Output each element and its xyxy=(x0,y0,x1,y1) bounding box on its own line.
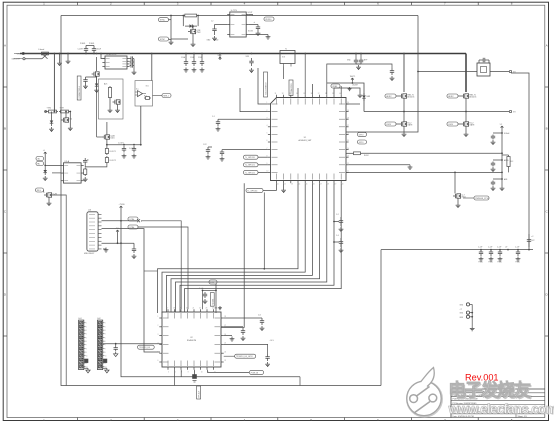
svg-text:C-OUT2: C-OUT2 xyxy=(129,148,135,150)
net label vertical left of U1 top xyxy=(264,72,268,97)
svg-text:U-C: U-C xyxy=(136,89,140,91)
svg-text:6: 6 xyxy=(267,140,268,142)
svg-text:9: 9 xyxy=(86,352,87,354)
svg-text:VO: VO xyxy=(513,112,516,114)
svg-text:4: 4 xyxy=(86,334,87,336)
comparator U6 xyxy=(138,91,143,97)
component Y1 on bus above U1 xyxy=(280,51,295,64)
transistor Q8 high side 2 xyxy=(464,93,466,98)
svg-text:B2B: B2B xyxy=(282,57,285,59)
svg-text:PGND18: PGND18 xyxy=(212,299,214,305)
capacitor C19 on header wire xyxy=(115,344,117,346)
capacitor C9 at U5 input xyxy=(214,25,216,29)
svg-text:+: + xyxy=(254,21,256,24)
svg-text:C-4: C-4 xyxy=(336,235,339,237)
svg-text:1: 1 xyxy=(158,316,159,318)
wire J1 pin row 1 xyxy=(102,220,138,222)
svg-text:C-1uF: C-1uF xyxy=(488,247,492,249)
wire IC1 feedback xyxy=(346,72,418,133)
terminal VO2 xyxy=(509,110,511,112)
capacitor bank right of U4 xyxy=(130,58,131,60)
svg-text:32: 32 xyxy=(282,93,284,95)
svg-text:C-OUT1: C-OUT1 xyxy=(118,143,124,145)
svg-text:16: 16 xyxy=(313,184,315,186)
svg-text:7: 7 xyxy=(105,345,106,347)
ground below C8 xyxy=(257,31,259,33)
net label GDM2 xyxy=(36,162,44,166)
resistor R6 in comparator box xyxy=(144,97,146,99)
svg-text:17: 17 xyxy=(167,308,169,310)
connector J1 xyxy=(87,212,98,251)
wire bus drop Q7 xyxy=(403,54,405,93)
svg-text:SYNC: SYNC xyxy=(160,39,166,41)
svg-text:9: 9 xyxy=(105,352,106,354)
transistor Q11 PMOS output xyxy=(105,134,107,139)
svg-text:AO4435: AO4435 xyxy=(469,96,476,99)
wire SW node junction xyxy=(417,71,419,73)
svg-text:VDD50: VDD50 xyxy=(265,19,271,21)
wire U1 top pin stub up xyxy=(340,86,342,95)
wire crystal drop a xyxy=(141,221,181,309)
svg-text:RDA5807M: RDA5807M xyxy=(187,339,197,342)
branch SCA-H xyxy=(493,132,502,134)
capacitor C30 output 1 xyxy=(123,146,125,148)
svg-text:R-OUT2: R-OUT2 xyxy=(110,160,116,162)
ground below C6A xyxy=(185,68,187,70)
IC U1 pin stubs and labels xyxy=(275,95,277,98)
wire U1 left pins out xyxy=(258,68,268,104)
wire bus drop left chain xyxy=(53,54,55,112)
capacitor C4 xyxy=(85,77,87,80)
net label TL_GPIO20 xyxy=(244,155,259,159)
ground below sync xyxy=(170,40,172,42)
net label VDD50 xyxy=(264,17,274,21)
wire sync joins xyxy=(169,19,172,21)
net label far left a xyxy=(128,217,138,221)
ground small above U2 xyxy=(219,306,221,308)
svg-text:AVD: AVD xyxy=(215,307,219,310)
net label vertical below U2 xyxy=(197,386,201,399)
capacitor C13 output electrolytic xyxy=(528,234,530,240)
wire U1 top pin to bus xyxy=(304,54,306,95)
svg-text:SCON: SCON xyxy=(248,31,254,33)
svg-text:1: 1 xyxy=(105,323,106,325)
wire stair 7 xyxy=(185,183,342,313)
power flag WGT1 xyxy=(351,78,353,81)
wire U3 left pin mid xyxy=(52,172,61,174)
ground below AVDD column xyxy=(501,186,503,188)
watermark text chinese xyxy=(448,379,554,417)
transistor Q9 low side xyxy=(402,121,404,126)
resistor R10 output divider upper xyxy=(106,147,108,149)
svg-text:VDD-CONNECT: VDD-CONNECT xyxy=(266,83,268,95)
terminal VO xyxy=(509,70,511,72)
svg-text:SYNC: SYNC xyxy=(160,20,166,22)
svg-text:10: 10 xyxy=(201,372,203,374)
svg-text:VIN: VIN xyxy=(17,54,21,56)
svg-text:18: 18 xyxy=(327,184,329,186)
svg-text:C-1uF: C-1uF xyxy=(478,247,482,249)
IC U1 main controller xyxy=(271,98,347,181)
svg-text:AVB: AVB xyxy=(504,178,508,181)
transistor Q6 xyxy=(64,117,66,122)
wire VO to filter cap column xyxy=(511,73,529,250)
watermark logo leaf xyxy=(407,368,442,417)
regulator U5 xyxy=(230,12,246,37)
net label right of Q3 xyxy=(474,196,489,200)
pin header J-H2 xyxy=(98,320,103,370)
resistor R5 on top rail xyxy=(183,15,185,17)
wire from GND connector xyxy=(25,58,42,60)
svg-text:20: 20 xyxy=(186,308,188,310)
resistor R9 pair right column xyxy=(508,155,510,157)
resistor R12 right of U3 xyxy=(84,168,86,170)
transistor Q10 low side 2 xyxy=(464,121,466,126)
IC U3 supervisor xyxy=(64,163,82,183)
svg-text:37: 37 xyxy=(318,93,320,95)
svg-text:A1: A1 xyxy=(87,159,89,162)
wire cap drop to U2 xyxy=(202,290,204,309)
svg-text:C-1: C-1 xyxy=(212,116,215,118)
frame column ticks xyxy=(76,2,78,5)
power flag 1p2 right column xyxy=(501,126,503,129)
wire long drop right of U2 xyxy=(221,183,244,327)
crossover of input pair xyxy=(42,54,48,59)
svg-text:R-FB2: R-FB2 xyxy=(364,155,369,157)
wire U1 bottom pin net label xyxy=(263,183,276,190)
svg-text:25: 25 xyxy=(347,140,349,142)
ground U5 right low xyxy=(249,34,268,36)
svg-text:+TVDD: +TVDD xyxy=(119,204,126,206)
transistor Q3 xyxy=(456,193,458,198)
diode D1 xyxy=(96,82,98,88)
svg-text:--<|: --<| xyxy=(460,308,463,311)
capacitor C2 PGND pullup xyxy=(85,46,87,49)
wire divider to U3 xyxy=(85,164,107,167)
ground below C33 xyxy=(391,76,393,78)
svg-text:24: 24 xyxy=(347,148,349,150)
wire routed left of stairs xyxy=(263,192,265,268)
net label TL_GPIO bottom xyxy=(246,188,263,192)
svg-text:5: 5 xyxy=(267,133,268,135)
svg-text:X-TAL: X-TAL xyxy=(129,226,134,229)
svg-text:C-1uF: C-1uF xyxy=(515,247,519,249)
wire output rail xyxy=(364,111,509,113)
net label GPIO b xyxy=(358,140,367,144)
svg-text:B: B xyxy=(4,127,6,131)
svg-text:RFG: RFG xyxy=(37,190,42,192)
svg-text:8: 8 xyxy=(188,372,189,374)
svg-text:C-G: C-G xyxy=(258,315,262,317)
svg-text:14: 14 xyxy=(299,184,301,186)
net label TP_GPIO right xyxy=(235,354,256,358)
svg-text:GND: GND xyxy=(207,40,212,42)
ground below C24 xyxy=(267,362,269,364)
svg-text:MBR: MBR xyxy=(367,96,371,98)
resistor R4 divider xyxy=(59,111,61,113)
svg-text:R-OUT1: R-OUT1 xyxy=(110,151,116,153)
svg-text:电子发烧友: 电子发烧友 xyxy=(448,379,531,400)
ground small below WGT1 xyxy=(349,87,351,89)
svg-text:J-M: J-M xyxy=(88,210,91,212)
svg-text:TP/GPIO_LB: TP/GPIO_LB xyxy=(139,347,151,349)
svg-text:2: 2 xyxy=(105,326,106,328)
svg-text:X-TAL: X-TAL xyxy=(129,218,134,221)
ground below R12 xyxy=(84,177,86,179)
diode D3 parallel path xyxy=(182,16,184,27)
svg-text:5: 5 xyxy=(105,337,106,339)
capacitor C33 bootstrap xyxy=(391,68,393,71)
net label GPIO a xyxy=(358,132,367,136)
ground below Q9 xyxy=(403,132,405,134)
capacitor C6A on bus xyxy=(185,59,187,62)
svg-text:28: 28 xyxy=(347,117,349,119)
net label SENSE right of box xyxy=(162,94,171,98)
svg-text:B: B xyxy=(546,127,548,131)
capacitor C6B on bus xyxy=(193,59,195,62)
ground below Q2 xyxy=(192,42,194,44)
svg-text:+C: +C xyxy=(531,236,534,238)
net label far left b xyxy=(128,225,138,229)
svg-text:4: 4 xyxy=(105,334,106,336)
ground in box right xyxy=(117,108,119,110)
wire from VIN connector xyxy=(24,53,40,55)
net label SYNC1 xyxy=(159,18,169,22)
svg-text:GND: GND xyxy=(347,60,351,62)
capacitor C31 output 2 xyxy=(133,146,135,148)
svg-text:1: 1 xyxy=(86,323,87,325)
wire AVDD column xyxy=(501,129,503,186)
wire output node horizontal xyxy=(107,144,141,146)
svg-text:L-F: L-F xyxy=(505,247,507,249)
diode D2 below divider xyxy=(54,111,56,113)
wire 1p8V down to U2 xyxy=(215,284,217,313)
terminal X1 xyxy=(137,219,140,222)
svg-text:PGND: PGND xyxy=(516,262,521,264)
wire stair 4 xyxy=(171,183,320,313)
wire testpoints common xyxy=(471,304,473,326)
wire stair 1 xyxy=(158,183,299,313)
svg-text:+5V L: +5V L xyxy=(270,340,275,342)
wire U5 VOUT to rail xyxy=(249,14,253,17)
svg-text:R-C: R-C xyxy=(511,161,515,163)
svg-text:11: 11 xyxy=(277,184,279,186)
svg-text:C10uH: C10uH xyxy=(96,49,102,51)
wire POW_IN from U2 bottom xyxy=(208,370,250,373)
svg-text:4: 4 xyxy=(267,125,268,127)
svg-text:OUT: OUT xyxy=(531,240,535,242)
svg-text:1.2: 1.2 xyxy=(211,21,213,23)
net label vertical above U1 xyxy=(289,80,293,96)
svg-text:TL_GPIO20: TL_GPIO20 xyxy=(245,157,255,159)
capacitor C7 on bus xyxy=(251,58,253,61)
wire comparator box to output node xyxy=(140,106,142,145)
wire J1 pin row 2 xyxy=(102,242,135,244)
capacitor C6C on bus xyxy=(201,59,203,62)
capacitor C14 left of U1 xyxy=(218,118,268,120)
svg-text:1.2V: 1.2V xyxy=(203,144,207,146)
title block frame xyxy=(450,389,452,418)
capacitor C24 5V branch xyxy=(267,354,269,357)
svg-text:GATE: GATE xyxy=(469,124,475,127)
wire left tall vertical xyxy=(61,16,381,386)
svg-text:GPIO: GPIO xyxy=(359,142,364,144)
svg-text:TTR7: TTR7 xyxy=(60,107,65,109)
svg-text:12: 12 xyxy=(105,363,107,365)
svg-text:5: 5 xyxy=(168,372,169,374)
svg-text:3: 3 xyxy=(158,334,159,336)
wire U1 top pin up xyxy=(297,88,299,95)
svg-text:SPK-OUT: SPK-OUT xyxy=(199,391,201,398)
svg-text:29: 29 xyxy=(347,110,349,112)
ground below D7 xyxy=(44,176,46,178)
ground below C19 xyxy=(115,352,117,354)
net label TP_GPIO_LB xyxy=(138,345,155,349)
frame row ticks xyxy=(3,86,7,88)
svg-text:A: A xyxy=(546,44,548,48)
svg-text:23: 23 xyxy=(224,360,226,362)
wire U5 right mid xyxy=(249,24,258,26)
wire U2 bottom to rail xyxy=(299,377,301,386)
ground below C7 xyxy=(251,68,253,70)
svg-text:3401: 3401 xyxy=(110,138,114,140)
svg-text:WGT1: WGT1 xyxy=(350,76,355,78)
svg-text:GND: GND xyxy=(460,304,464,306)
svg-text:31: 31 xyxy=(275,93,277,95)
svg-text:LDRV: LDRV xyxy=(386,124,392,126)
capacitor C22 on output row xyxy=(499,250,501,252)
capacitor C21 on output row xyxy=(490,250,492,252)
IC U2 pin stubs xyxy=(167,309,169,312)
ground in box left xyxy=(109,108,111,110)
svg-text:6: 6 xyxy=(158,360,159,362)
svg-text:TL_GPIO21: TL_GPIO21 xyxy=(245,165,255,167)
svg-text:PWM-EN_ST10: PWM-EN_ST10 xyxy=(475,198,488,200)
svg-text:MINI-USB-9P: MINI-USB-9P xyxy=(84,253,95,255)
ground below C30 xyxy=(123,154,125,156)
ground right of U1 top xyxy=(359,93,361,95)
wire Q11 gate xyxy=(96,77,98,137)
wire U2 right row1 xyxy=(224,317,262,319)
wire U1 right pin to column xyxy=(346,171,502,173)
svg-text:PA: PA xyxy=(37,162,40,165)
svg-text:C10A: C10A xyxy=(181,56,186,59)
wire lower-right region boundary xyxy=(380,250,382,386)
ground below C4 xyxy=(85,84,87,86)
capacitor C8 with polarity xyxy=(257,25,259,27)
wire Y1 down to U1 xyxy=(283,67,285,80)
wire U5 left input xyxy=(215,24,228,26)
wire main VIN bus xyxy=(20,53,466,55)
wire branch to crystal drop xyxy=(144,270,158,272)
svg-text:C-1uF: C-1uF xyxy=(199,288,203,290)
svg-text:8: 8 xyxy=(105,348,106,350)
ground below C9 xyxy=(214,36,216,38)
svg-text:PGND: PGND xyxy=(489,262,494,264)
ground below input xyxy=(59,54,61,62)
wire SW vertical xyxy=(327,83,364,112)
subcircuit box xyxy=(99,79,124,119)
ground right of U1 xyxy=(409,165,411,167)
net label SYNC2 xyxy=(159,37,169,41)
resistor R8 right of U1 xyxy=(352,152,354,154)
svg-text:HDRV: HDRV xyxy=(386,96,392,98)
resistor R11 output divider lower xyxy=(106,156,108,158)
ground right of divider xyxy=(69,112,71,127)
svg-text:VREF: VREF xyxy=(332,86,338,88)
ground right of U2 xyxy=(231,337,233,339)
svg-text:VOUT: VOUT xyxy=(248,12,254,14)
svg-text:U2: U2 xyxy=(190,337,192,339)
svg-text:13: 13 xyxy=(291,184,293,186)
svg-text:A: A xyxy=(4,44,6,48)
svg-text:U3-A: U3-A xyxy=(65,160,70,163)
svg-text:HDRV: HDRV xyxy=(448,96,454,98)
wire top rail xyxy=(61,15,183,17)
svg-text:+5: +5 xyxy=(43,150,45,152)
ground header2 xyxy=(106,368,108,370)
svg-text:3: 3 xyxy=(86,330,87,332)
diode D6 header2 xyxy=(103,359,107,363)
pin header J-H1 xyxy=(79,320,84,370)
svg-text:TL_GPIO24: TL_GPIO24 xyxy=(247,190,257,192)
wire U1 right pin nets xyxy=(346,103,360,105)
svg-text:GND_EXT: GND_EXT xyxy=(12,59,21,61)
capacitor C17 on stair xyxy=(334,241,339,243)
wire stair 6 xyxy=(180,183,334,313)
wire stair 5 xyxy=(176,183,327,313)
ground below C31 xyxy=(133,154,135,156)
capacitor C32 right of U3 xyxy=(81,164,85,166)
ground below testpoints xyxy=(471,326,473,328)
ground below J1 xyxy=(103,248,106,250)
net label POW_IN xyxy=(250,370,264,374)
svg-text:GPIO: GPIO xyxy=(359,134,364,136)
net label small above U1 xyxy=(331,84,340,88)
svg-text:POW_IN: POW_IN xyxy=(251,372,259,374)
svg-text:PGND: PGND xyxy=(89,43,95,45)
wire J1 drop a xyxy=(121,221,300,377)
power flag VND xyxy=(219,57,221,60)
svg-text:SCA-H: SCA-H xyxy=(504,132,510,135)
wire sync label 2 to gate xyxy=(171,38,188,40)
svg-text:R-S: R-S xyxy=(144,96,147,98)
wire J1 row to stair drop xyxy=(102,229,161,352)
svg-text:U1: U1 xyxy=(304,137,306,139)
branch AVDD xyxy=(493,159,502,161)
svg-text:C-2: C-2 xyxy=(336,214,339,216)
svg-text:AJX: AJX xyxy=(104,83,108,86)
svg-text:C-BYP: C-BYP xyxy=(363,60,368,62)
resistor R2 in box xyxy=(109,86,111,88)
ground below C20 xyxy=(204,299,206,301)
svg-text:27: 27 xyxy=(347,125,349,127)
svg-text:LX-BST: LX-BST xyxy=(352,85,358,87)
svg-text:PGND: PGND xyxy=(80,43,86,45)
wire Q1 down xyxy=(96,77,98,82)
svg-text:C-bead: C-bead xyxy=(38,49,44,51)
svg-text:PGND: PGND xyxy=(214,40,220,42)
ground U4 caps xyxy=(133,70,135,72)
wire U1 left pin7 xyxy=(222,149,268,151)
svg-text:x: x xyxy=(141,221,142,223)
ground below C11 xyxy=(358,65,360,67)
svg-text:23: 23 xyxy=(347,155,349,157)
capacitor C11 on SW xyxy=(355,54,357,59)
wire stair 2 xyxy=(162,183,305,313)
svg-text:LDRV: LDRV xyxy=(448,124,454,126)
svg-text:GD: GD xyxy=(37,158,40,160)
